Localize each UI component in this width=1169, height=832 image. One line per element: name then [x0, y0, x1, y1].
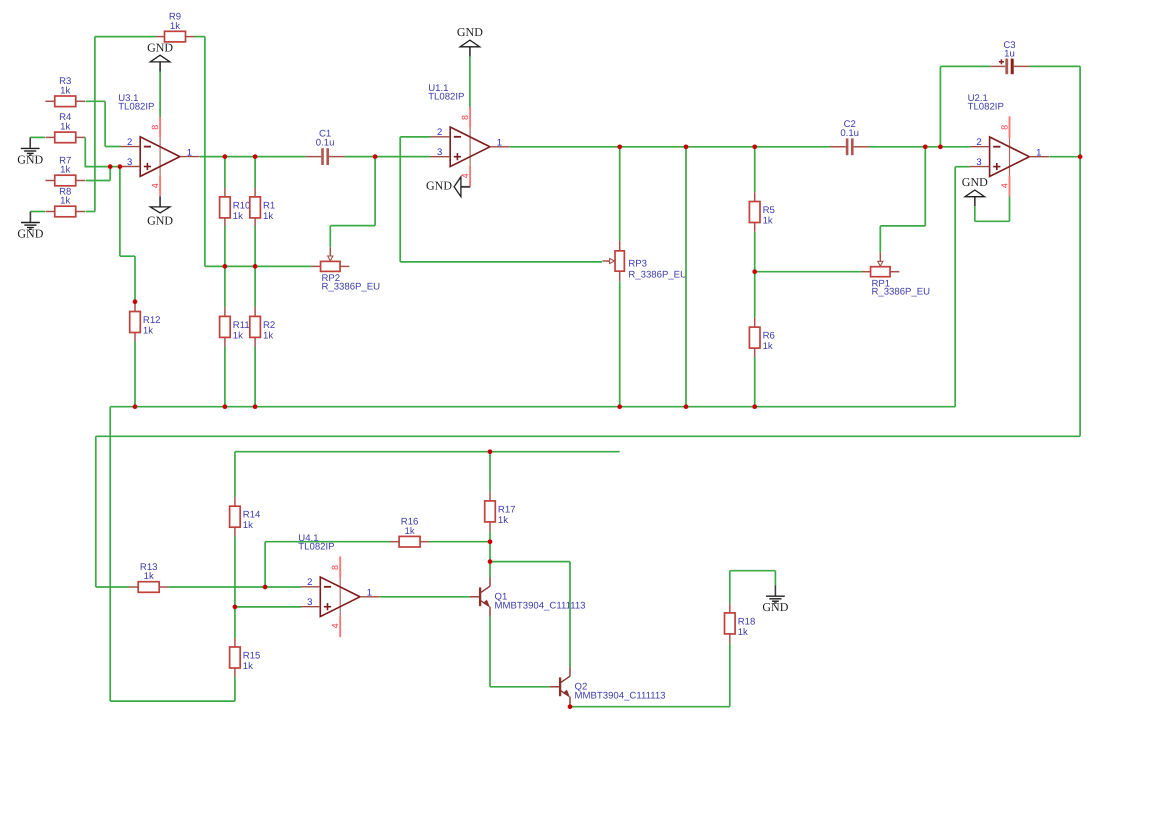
svg-text:1: 1 [187, 147, 192, 158]
svg-text:MMBT3904_C111113: MMBT3904_C111113 [575, 690, 666, 701]
svg-text:2: 2 [437, 127, 442, 138]
svg-text:8: 8 [1000, 125, 1010, 130]
svg-text:GND: GND [17, 152, 43, 166]
svg-text:1: 1 [1036, 147, 1041, 158]
svg-text:1k: 1k [60, 86, 70, 97]
svg-text:2: 2 [127, 137, 132, 148]
svg-text:GND: GND [457, 25, 483, 39]
svg-text:4: 4 [150, 183, 160, 188]
svg-text:2: 2 [307, 577, 312, 588]
svg-text:4: 4 [330, 623, 340, 628]
svg-text:R6: R6 [763, 331, 775, 342]
svg-text:GND: GND [147, 214, 173, 228]
svg-text:1k: 1k [243, 520, 253, 531]
svg-text:TL082IP: TL082IP [428, 92, 464, 103]
svg-text:GND: GND [426, 179, 452, 193]
svg-text:1: 1 [497, 138, 502, 149]
svg-text:R17: R17 [498, 504, 516, 515]
svg-text:1k: 1k [60, 165, 70, 176]
svg-text:1k: 1k [170, 21, 180, 32]
svg-text:1k: 1k [405, 526, 415, 537]
svg-text:8: 8 [330, 565, 340, 570]
svg-text:R_3386P_EU: R_3386P_EU [321, 281, 380, 292]
svg-text:1k: 1k [263, 211, 273, 222]
svg-text:R11: R11 [233, 320, 250, 331]
svg-text:GND: GND [17, 226, 43, 240]
svg-text:3: 3 [307, 597, 312, 608]
svg-text:1k: 1k [263, 330, 273, 341]
svg-text:1: 1 [367, 588, 372, 599]
svg-text:R_3386P_EU: R_3386P_EU [628, 270, 687, 281]
svg-text:3: 3 [437, 147, 442, 158]
svg-text:R1: R1 [263, 200, 275, 211]
svg-text:3: 3 [976, 157, 981, 168]
svg-text:R2: R2 [263, 320, 275, 331]
svg-text:4: 4 [1000, 183, 1010, 188]
svg-text:2: 2 [976, 137, 981, 148]
svg-text:1k: 1k [233, 211, 243, 222]
svg-text:0.1u: 0.1u [316, 138, 335, 149]
svg-text:TL082IP: TL082IP [968, 102, 1004, 113]
svg-text:0.1u: 0.1u [840, 128, 859, 139]
svg-text:1k: 1k [763, 216, 773, 227]
svg-text:R15: R15 [243, 651, 261, 662]
svg-text:1k: 1k [738, 627, 748, 638]
svg-text:R10: R10 [233, 200, 251, 211]
svg-text:R18: R18 [738, 616, 756, 627]
svg-text:1u: 1u [1004, 48, 1015, 59]
svg-text:R12: R12 [143, 315, 161, 326]
svg-text:MMBT3904_C111113: MMBT3904_C111113 [495, 600, 586, 611]
svg-text:1k: 1k [144, 571, 154, 582]
svg-text:8: 8 [460, 115, 470, 120]
svg-text:R14: R14 [243, 510, 261, 521]
svg-text:1k: 1k [60, 196, 70, 207]
svg-text:1k: 1k [143, 326, 153, 337]
svg-text:GND: GND [147, 40, 173, 54]
svg-text:1k: 1k [763, 341, 773, 352]
svg-text:TL082IP: TL082IP [298, 542, 334, 553]
svg-text:8: 8 [150, 125, 160, 130]
svg-text:4: 4 [460, 173, 470, 178]
svg-text:1k: 1k [243, 661, 253, 672]
svg-text:R5: R5 [763, 205, 775, 216]
svg-text:GND: GND [762, 600, 788, 614]
svg-text:1k: 1k [60, 122, 70, 133]
svg-text:1k: 1k [498, 515, 508, 526]
svg-text:RP3: RP3 [628, 258, 647, 269]
svg-text:1k: 1k [233, 330, 243, 341]
svg-text:TL082IP: TL082IP [118, 102, 154, 113]
svg-text:3: 3 [127, 157, 132, 168]
svg-text:GND: GND [962, 175, 988, 189]
svg-text:R_3386P_EU: R_3386P_EU [871, 287, 930, 298]
